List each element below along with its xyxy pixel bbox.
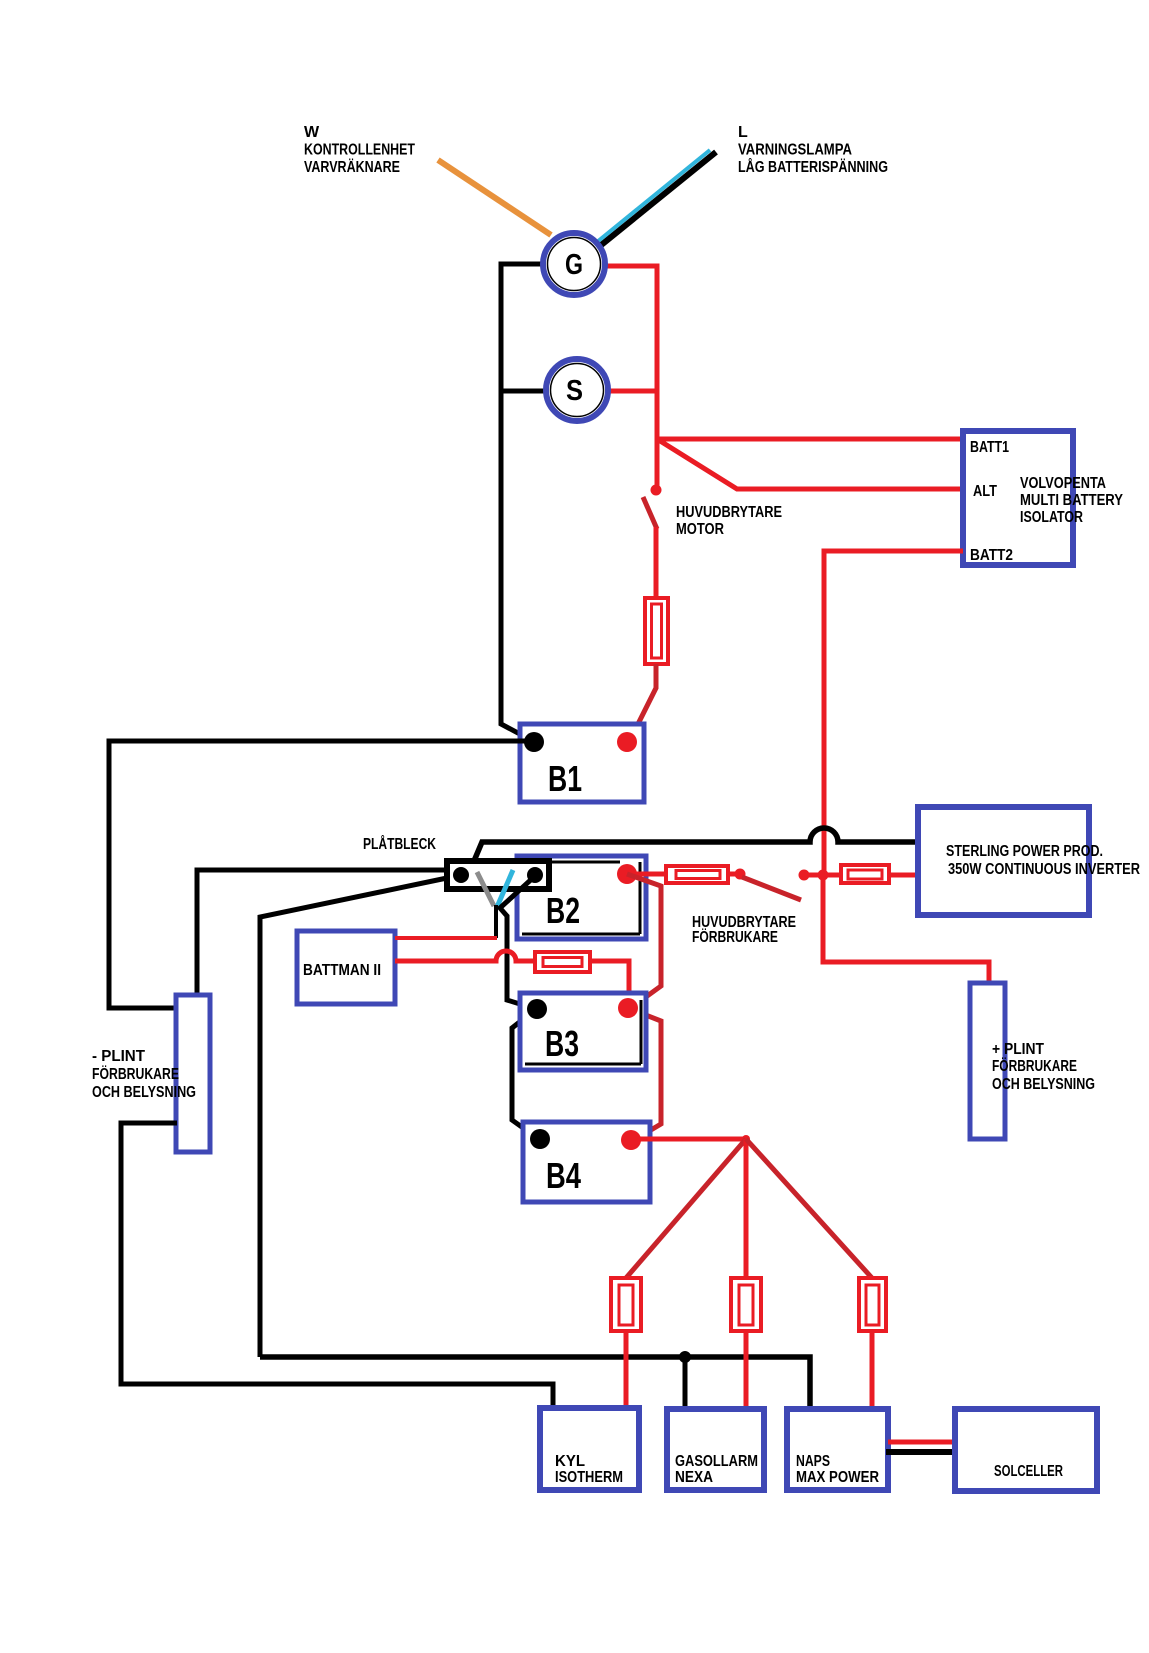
svg-text:- PLINT: - PLINT bbox=[92, 1048, 145, 1065]
svg-text:350W CONTINUOUS INVERTER: 350W CONTINUOUS INVERTER bbox=[948, 861, 1140, 878]
wire fuse to B1 plus bbox=[630, 664, 656, 740]
label W kontrollenhet varvräknare bbox=[304, 124, 415, 176]
svg-text:MAX POWER: MAX POWER bbox=[796, 1469, 879, 1486]
wire red batt2 down to plus plint bbox=[823, 875, 989, 983]
kyl isotherm box bbox=[540, 1408, 639, 1490]
wire fuse to inverter bbox=[889, 873, 919, 878]
wire fuse to gasollarm box bbox=[744, 1331, 749, 1409]
wire fuse to naps box bbox=[870, 1331, 875, 1409]
wire S right red bbox=[608, 389, 657, 394]
svg-text:STERLING POWER PROD.: STERLING POWER PROD. bbox=[946, 843, 1103, 860]
svg-text:+ PLINT: + PLINT bbox=[992, 1041, 1044, 1058]
wire battman sense red bbox=[395, 936, 497, 940]
wire cyan to warning lamp bbox=[597, 150, 710, 242]
svg-text:GASOLLARM: GASOLLARM bbox=[675, 1453, 758, 1470]
svg-text:NEXA: NEXA bbox=[675, 1469, 713, 1486]
wire black stub to battman sense bbox=[494, 905, 498, 938]
label volvopenta multi battery isolator bbox=[1020, 475, 1123, 526]
fuse naps bbox=[859, 1278, 886, 1331]
switch huvudbrytare förbrukare bbox=[728, 869, 841, 901]
fuse kyl bbox=[611, 1278, 641, 1331]
svg-text:VARNINGSLAMPA: VARNINGSLAMPA bbox=[738, 142, 852, 159]
svg-text:ALT: ALT bbox=[973, 483, 997, 500]
starter S bbox=[546, 359, 608, 421]
generator G bbox=[543, 233, 605, 295]
wire G left black bbox=[501, 264, 545, 741]
fan junction bbox=[742, 1135, 750, 1143]
wire G right red bbox=[604, 266, 657, 439]
wire gray sense bbox=[477, 872, 494, 906]
wire minus plint lower out bbox=[121, 1123, 553, 1408]
wire B2 minus to B3 minus bbox=[500, 876, 536, 1009]
sterling inverter box bbox=[918, 807, 1140, 915]
svg-text:FÖRBRUKARE: FÖRBRUKARE bbox=[992, 1056, 1077, 1075]
svg-text:ISOLATOR: ISOLATOR bbox=[1020, 509, 1083, 526]
plus plint box bbox=[970, 983, 1095, 1139]
svg-text:MOTOR: MOTOR bbox=[676, 521, 724, 538]
fuse motor bbox=[645, 598, 668, 664]
svg-text:L: L bbox=[738, 124, 748, 141]
svg-text:B2: B2 bbox=[546, 890, 580, 931]
svg-text:PLÅTBLECK: PLÅTBLECK bbox=[363, 834, 436, 853]
gasollarm nexa box bbox=[667, 1409, 764, 1490]
fuse battman bbox=[535, 952, 590, 972]
minus plint box bbox=[176, 995, 210, 1152]
wire red junction down to switch bbox=[655, 439, 660, 489]
svg-text:B4: B4 bbox=[546, 1155, 581, 1196]
battery B1 bbox=[520, 724, 644, 802]
wire cyan sense bbox=[497, 870, 513, 907]
naps max power box bbox=[787, 1409, 888, 1490]
svg-text:KYL: KYL bbox=[555, 1453, 585, 1470]
svg-text:MULTI BATTERY: MULTI BATTERY bbox=[1020, 492, 1123, 509]
label huvudbrytare motor bbox=[676, 504, 782, 538]
svg-text:B1: B1 bbox=[548, 758, 582, 799]
switch huvudbrytare motor bbox=[643, 485, 662, 530]
wire plint top feed bbox=[197, 870, 447, 993]
svg-text:KONTROLLENHET: KONTROLLENHET bbox=[304, 142, 415, 159]
wire plåtbleck diagonal to bottom bus bbox=[260, 878, 447, 1357]
junction BATT2 line with förbrukare line bbox=[818, 870, 829, 881]
wire black to warning lamp bbox=[600, 152, 716, 246]
svg-text:BATTMAN II: BATTMAN II bbox=[303, 962, 381, 979]
wire red junction to BATT1 bbox=[657, 437, 963, 442]
wire switch to fuse bbox=[654, 527, 659, 598]
wire B3 minus to B4 minus bbox=[512, 1009, 540, 1140]
svg-text:OCH BELYSNING: OCH BELYSNING bbox=[92, 1084, 196, 1101]
wire fan to fuse kyl bbox=[626, 1139, 746, 1278]
wire fuse to kyl box bbox=[624, 1331, 629, 1408]
negative bus bottom bbox=[260, 1357, 810, 1409]
B2 plus terminal bbox=[617, 864, 637, 884]
wire battman fuse to B3 plus bbox=[590, 961, 629, 1003]
wire orange to tachometer control unit bbox=[438, 160, 551, 235]
wire naps to solceller red bbox=[888, 1440, 956, 1445]
wire fan to fuse naps bbox=[746, 1139, 872, 1278]
svg-text:FÖRBRUKARE: FÖRBRUKARE bbox=[692, 927, 778, 946]
wire fan to fuse gasollarm bbox=[744, 1139, 749, 1278]
wire B4 plus to fan junction bbox=[636, 1137, 746, 1142]
wire B1 minus to left bbox=[109, 741, 533, 1008]
wire naps to solceller black bbox=[886, 1449, 956, 1455]
label L varningslampa låg batterispänning bbox=[738, 124, 888, 176]
svg-text:NAPS: NAPS bbox=[796, 1453, 830, 1470]
red link B2 to B3 bbox=[627, 874, 661, 1007]
battery B4 bbox=[523, 1122, 650, 1202]
svg-text:OCH BELYSNING: OCH BELYSNING bbox=[992, 1076, 1095, 1093]
plåtbleck plate bbox=[447, 861, 549, 889]
svg-text:S: S bbox=[566, 375, 583, 407]
battery B3 bbox=[520, 993, 646, 1070]
fuse inverter bbox=[841, 865, 889, 883]
svg-text:ISOTHERM: ISOTHERM bbox=[555, 1469, 623, 1486]
wire bus to gasollarm bbox=[683, 1357, 688, 1409]
svg-text:BATT1: BATT1 bbox=[970, 439, 1009, 456]
junction bottom bus bbox=[679, 1351, 691, 1363]
wire red diagonal to ALT bbox=[657, 439, 963, 489]
wire battman charge with hop and fuse bbox=[395, 951, 535, 961]
svg-text:SOLCELLER: SOLCELLER bbox=[994, 1463, 1063, 1480]
battery B2 bbox=[517, 856, 646, 939]
label minus plint bbox=[92, 1048, 196, 1101]
fuse gasollarm bbox=[731, 1278, 761, 1331]
battery isolator box bbox=[963, 431, 1073, 565]
fuse förbrukare bbox=[666, 866, 728, 883]
solceller box bbox=[955, 1409, 1097, 1491]
red link B3 to B4 bbox=[628, 1008, 661, 1140]
label huvudbrytare förbrukare bbox=[692, 914, 796, 946]
svg-text:HUVUDBRYTARE: HUVUDBRYTARE bbox=[676, 504, 782, 521]
svg-text:FÖRBRUKARE: FÖRBRUKARE bbox=[92, 1064, 179, 1083]
wire BATT2 red down bbox=[824, 551, 963, 873]
wire B2 plus to fuse bbox=[627, 872, 666, 877]
svg-text:BATT2: BATT2 bbox=[970, 547, 1013, 564]
wire S left black bbox=[501, 389, 546, 394]
negative bus from inverter with hop bbox=[474, 828, 918, 861]
svg-text:LÅG BATTERISPÄNNING: LÅG BATTERISPÄNNING bbox=[738, 157, 888, 176]
svg-text:VOLVOPENTA: VOLVOPENTA bbox=[1020, 475, 1106, 492]
svg-text:G: G bbox=[565, 249, 583, 281]
svg-text:W: W bbox=[304, 124, 320, 141]
battman II box bbox=[297, 931, 395, 1004]
svg-text:VARVRÄKNARE: VARVRÄKNARE bbox=[304, 158, 400, 176]
svg-text:B3: B3 bbox=[545, 1023, 579, 1064]
